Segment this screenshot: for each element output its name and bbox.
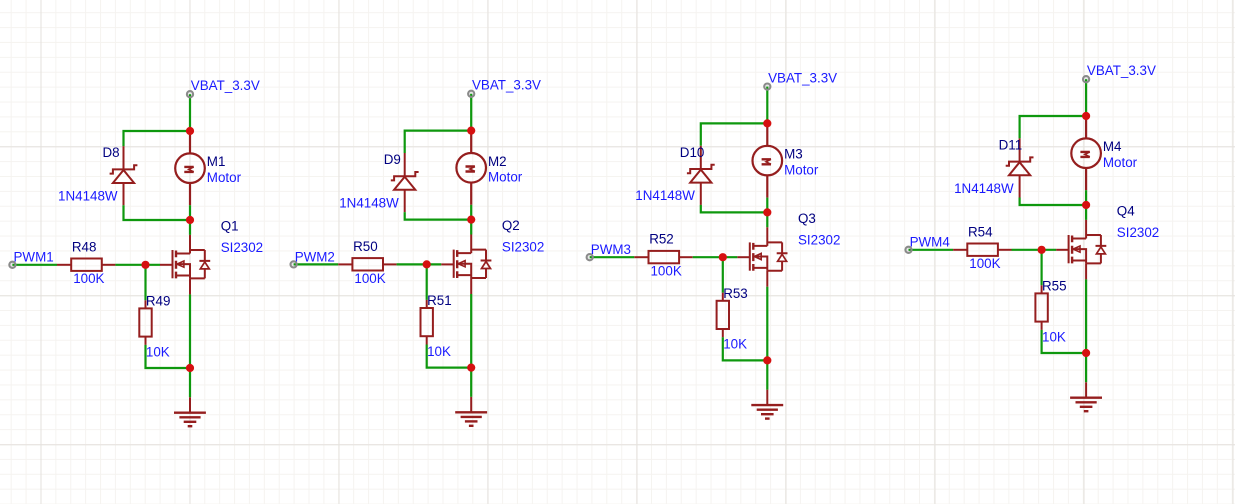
wire node D to resistor R49: [144, 265, 146, 301]
junction node B: [1082, 201, 1090, 209]
wire R49 to node C: [146, 345, 191, 368]
svg-text:VBAT_3.3V: VBAT_3.3V: [768, 70, 837, 85]
svg-text:R53: R53: [723, 286, 748, 301]
junction node B: [467, 216, 475, 224]
svg-text:1N4148W: 1N4148W: [58, 189, 118, 204]
wire node A to diode D8 cathode branch: [124, 131, 192, 146]
junction node B: [186, 216, 194, 224]
wire motor to node B and Q drain: [1085, 190, 1087, 220]
input terminal PWM4: [905, 247, 911, 253]
wire R51 to node C: [427, 345, 472, 368]
wire R48 to node D and Q gate: [115, 264, 160, 266]
svg-text:VBAT_3.3V: VBAT_3.3V: [191, 78, 260, 93]
motor M3: [753, 123, 783, 197]
svg-text:1N4148W: 1N4148W: [635, 188, 695, 203]
wire motor to node B and Q drain: [470, 205, 472, 235]
diode D9 1N4148W: [391, 153, 419, 212]
wire node A to diode D10 cathode branch: [701, 123, 769, 145]
svg-text:PWM1: PWM1: [14, 250, 54, 265]
ground symbol: [174, 397, 206, 426]
svg-text:SI2302: SI2302: [502, 240, 544, 255]
wire node D to resistor R55: [1040, 250, 1042, 286]
input terminal PWM3: [587, 254, 593, 260]
power terminal ring VBAT_3.3V: [1083, 76, 1089, 82]
wire R53 to node C: [723, 337, 768, 360]
power terminal ring VBAT_3.3V: [764, 84, 770, 90]
transistor Q3 SI2302 N-MOSFET: [737, 227, 787, 287]
junction node D: [423, 260, 431, 268]
svg-text:R55: R55: [1042, 279, 1067, 294]
svg-text:D10: D10: [680, 145, 705, 160]
svg-text:D9: D9: [384, 152, 401, 167]
svg-text:Motor: Motor: [488, 170, 523, 185]
wire Q source to node C and ground: [470, 294, 472, 397]
wire PWM2 to resistor R50: [294, 263, 339, 265]
svg-text:PWM2: PWM2: [295, 249, 335, 264]
junction node C: [467, 364, 475, 372]
transistor Q1 SI2302 N-MOSFET: [160, 235, 210, 295]
junction node A: [1082, 112, 1090, 120]
resistor R53 10K: [717, 293, 729, 338]
wire node D to resistor R51: [426, 264, 428, 300]
svg-text:PWM4: PWM4: [910, 235, 951, 250]
junction node A: [186, 127, 194, 135]
resistor R55 10K: [1035, 285, 1047, 330]
wire PWM1 to resistor R48: [12, 264, 57, 266]
svg-text:M3: M3: [784, 147, 803, 162]
svg-text:10K: 10K: [427, 344, 451, 359]
svg-text:1N4148W: 1N4148W: [954, 181, 1014, 196]
svg-text:SI2302: SI2302: [1117, 225, 1159, 240]
transistor Q4 SI2302 N-MOSFET: [1056, 220, 1106, 280]
svg-text:100K: 100K: [73, 271, 104, 286]
motor M4: [1071, 116, 1101, 190]
resistor R50 100K: [338, 258, 396, 270]
wire VBAT terminal to node A: [1085, 79, 1087, 116]
wire PWM4 to resistor R54: [909, 249, 954, 251]
svg-text:R49: R49: [146, 294, 171, 309]
input terminal ring PWM3: [587, 254, 593, 260]
wire R50 to node D and Q gate: [397, 263, 442, 265]
wire diode anode to node B: [701, 205, 768, 213]
input terminal PWM2: [291, 261, 297, 267]
junction node A: [763, 119, 771, 127]
junction node C: [186, 364, 194, 372]
svg-text:10K: 10K: [146, 344, 170, 359]
svg-text:100K: 100K: [969, 256, 1000, 271]
resistor R52 100K: [634, 251, 692, 263]
wire motor to node B and Q drain: [189, 205, 191, 235]
diode D10 1N4148W: [687, 146, 715, 205]
ground symbol: [455, 397, 487, 426]
wire diode anode to node B: [1020, 198, 1087, 206]
wire Q source to node C and ground: [1085, 279, 1087, 382]
input terminal ring PWM1: [9, 262, 15, 268]
wire VBAT terminal to node A: [766, 87, 768, 124]
svg-text:R54: R54: [968, 224, 993, 239]
svg-text:D11: D11: [999, 137, 1023, 152]
wire R54 to node D and Q gate: [1012, 249, 1057, 251]
junction node D: [141, 261, 149, 269]
diode D8 1N4148W: [110, 146, 138, 205]
wire VBAT terminal to node A: [470, 94, 472, 131]
svg-text:Q1: Q1: [221, 218, 239, 233]
ground symbol: [1070, 382, 1102, 411]
svg-text:100K: 100K: [354, 271, 385, 286]
wire R52 to node D and Q gate: [693, 256, 738, 258]
svg-text:SI2302: SI2302: [221, 240, 263, 255]
svg-text:Motor: Motor: [207, 170, 242, 185]
motor M2: [456, 131, 486, 205]
wire diode anode to node B: [405, 212, 472, 220]
input terminal ring PWM2: [291, 261, 297, 267]
svg-text:Q3: Q3: [798, 211, 816, 226]
ground symbol: [751, 390, 783, 419]
svg-text:R51: R51: [427, 293, 452, 308]
svg-text:Motor: Motor: [784, 163, 819, 178]
resistor R54 100K: [953, 244, 1011, 256]
power terminal ring VBAT_3.3V: [468, 91, 474, 97]
junction node D: [719, 253, 727, 261]
svg-text:Motor: Motor: [1103, 155, 1138, 170]
power terminal VBAT_3.3V (circuit 4): [1083, 76, 1089, 82]
power terminal VBAT_3.3V (circuit 3): [764, 84, 770, 90]
svg-text:R52: R52: [649, 232, 674, 247]
svg-text:Q4: Q4: [1117, 203, 1135, 218]
svg-text:100K: 100K: [651, 264, 682, 279]
wire PWM3 to resistor R52: [590, 256, 635, 258]
power terminal ring VBAT_3.3V: [187, 91, 193, 97]
wire Q source to node C and ground: [766, 287, 768, 390]
svg-text:M2: M2: [488, 154, 507, 169]
junction node D: [1038, 246, 1046, 254]
wire VBAT terminal to node A: [189, 94, 191, 131]
junction node C: [763, 356, 771, 364]
svg-text:Q2: Q2: [502, 218, 520, 233]
junction node B: [763, 208, 771, 216]
svg-text:VBAT_3.3V: VBAT_3.3V: [472, 78, 541, 93]
svg-text:D8: D8: [103, 145, 120, 160]
resistor R51 10K: [421, 300, 433, 345]
diode D11 1N4148W: [1006, 138, 1034, 197]
svg-text:M4: M4: [1103, 139, 1122, 154]
wire node A to diode D11 cathode branch: [1020, 116, 1088, 138]
resistor R48 100K: [57, 259, 115, 271]
wire motor to node B and Q drain: [766, 198, 768, 228]
svg-text:PWM3: PWM3: [591, 242, 631, 257]
junction node C: [1082, 349, 1090, 357]
wire Q source to node C and ground: [189, 294, 191, 397]
power terminal VBAT_3.3V (circuit 1): [187, 91, 193, 97]
wire diode anode to node B: [124, 205, 191, 220]
svg-text:M1: M1: [207, 154, 226, 169]
svg-text:SI2302: SI2302: [798, 232, 840, 247]
wire node A to diode D9 cathode branch: [405, 131, 473, 153]
svg-text:10K: 10K: [1042, 329, 1066, 344]
junction node A: [467, 127, 475, 135]
wire R55 to node C: [1042, 330, 1087, 353]
svg-text:R50: R50: [353, 239, 378, 254]
svg-text:1N4148W: 1N4148W: [339, 195, 399, 210]
resistor R49 10K: [139, 300, 151, 345]
transistor Q2 SI2302 N-MOSFET: [441, 235, 491, 295]
svg-text:10K: 10K: [723, 337, 747, 352]
wire node D to resistor R53: [722, 257, 724, 293]
svg-text:R48: R48: [72, 239, 97, 254]
svg-text:VBAT_3.3V: VBAT_3.3V: [1087, 63, 1156, 78]
input terminal PWM1: [9, 262, 15, 268]
power terminal VBAT_3.3V (circuit 2): [468, 91, 474, 97]
motor M1: [175, 131, 205, 205]
input terminal ring PWM4: [905, 247, 911, 253]
